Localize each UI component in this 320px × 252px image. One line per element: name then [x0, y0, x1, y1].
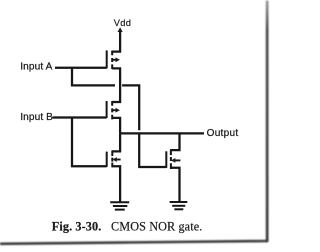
wire Q3 source to ground: [112, 166, 120, 202]
svg-text:Input A: Input A: [20, 62, 52, 73]
ground GND right: [170, 202, 188, 209]
svg-text:CMOS NOR gate.: CMOS NOR gate.: [111, 219, 202, 233]
caption Fig. 3-30. CMOS NOR gate.: [52, 219, 203, 233]
wire Q2 source to output node: [112, 118, 120, 133]
wire output to Q4 drain: [170, 133, 179, 150]
svg-text:Input B: Input B: [20, 112, 53, 123]
wire output node to Q3 drain: [112, 133, 121, 151]
wire output line: [120, 132, 204, 134]
svg-text:Vdd: Vdd: [114, 18, 131, 28]
wire Vdd to Q1 drain: [111, 31, 120, 52]
transistor Q2 PMOS (gate Input B): [107, 101, 120, 119]
wire Input A to Q1 gate: [55, 67, 107, 69]
wire Input B to Q2 gate: [53, 116, 107, 118]
wire Q4 source to ground: [171, 168, 180, 202]
wire Input B branch to Q3 gate: [72, 118, 107, 167]
power Vdd terminal: [114, 18, 131, 32]
transistor Q3 NMOS left (gate Input B): [107, 151, 121, 167]
transistor Q1 PMOS (gate Input A): [107, 50, 120, 69]
wire Q1 source to Q2 drain: [111, 68, 120, 102]
ground GND left: [110, 202, 129, 209]
wire Input A branch to Q4 gate: [72, 68, 166, 167]
transistor Q4 NMOS right (gate Input A): [166, 150, 180, 169]
svg-text:Fig. 3-30.: Fig. 3-30.: [52, 219, 102, 233]
svg-text:Output: Output: [207, 128, 239, 139]
